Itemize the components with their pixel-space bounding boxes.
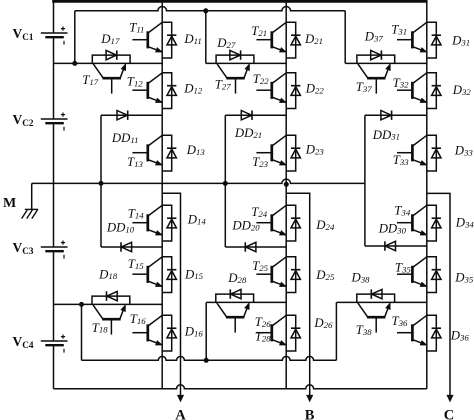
diode D22 xyxy=(286,73,300,109)
wire feeder drop phase B xyxy=(205,11,207,64)
diode D18 xyxy=(107,291,118,300)
wire output tap A xyxy=(162,193,180,396)
diode D25 xyxy=(286,257,300,293)
transistor T16 xyxy=(132,315,162,345)
wire T38 feeder riser xyxy=(335,302,337,360)
wire clamp bus phase A xyxy=(100,115,102,247)
wire T28 feeder riser xyxy=(205,302,207,360)
transistor T17 xyxy=(93,64,125,94)
wire feeder drop phase A xyxy=(74,11,76,64)
node output arrow B xyxy=(307,395,313,401)
transistor T26 xyxy=(256,315,286,345)
wire feeder drop phase C xyxy=(344,11,346,64)
node feeder dot phase B xyxy=(203,8,208,13)
wire M rail to ground xyxy=(31,183,33,209)
transistor T32 xyxy=(397,73,427,103)
transistor T12 xyxy=(132,73,162,103)
diode D12 xyxy=(162,73,176,109)
diode D27 xyxy=(230,50,241,59)
transistor T24 xyxy=(256,205,286,235)
transistor T13 xyxy=(132,135,162,165)
wire top DC+ bus xyxy=(52,0,427,3)
diode DD20 xyxy=(225,242,286,251)
diode D21 xyxy=(286,22,300,58)
diode D14 xyxy=(162,205,176,241)
wire VC3-VC4 junction to T18 row xyxy=(54,303,163,305)
transistor T34 xyxy=(397,205,427,235)
wire VC3-VC4 riser to rail1 xyxy=(81,304,83,360)
wire output tap C xyxy=(427,193,450,396)
diode DD11 xyxy=(101,111,162,120)
diode D27 loop xyxy=(216,55,254,63)
diode D17 xyxy=(106,50,117,59)
diode D24 xyxy=(286,205,300,241)
wire T37 row xyxy=(345,62,427,64)
diode D36 xyxy=(427,315,441,351)
wire T28 row xyxy=(206,301,286,303)
wire M midpoint rail xyxy=(32,179,365,183)
wire phase-C leg rail xyxy=(426,1,428,388)
wire VC1-VC2 junction top feeder xyxy=(75,6,345,10)
transistor T37 xyxy=(358,64,390,94)
capacitor VC1 xyxy=(41,27,68,45)
node VC3-VC4 junction dot xyxy=(79,302,84,307)
svg-text:A: A xyxy=(175,408,186,420)
wire clamp bus phase B xyxy=(224,115,226,247)
capacitor VC2 xyxy=(41,113,68,131)
diode DD30 xyxy=(365,241,427,250)
diode D16 xyxy=(162,315,176,351)
diode D18 loop xyxy=(92,296,130,304)
diode D11 xyxy=(162,22,176,58)
node clamp bus dot phase B xyxy=(223,181,228,186)
node rail1 dot phase B riser xyxy=(204,358,209,363)
diode D34 xyxy=(427,205,441,241)
transistor T23 xyxy=(256,135,286,165)
diode D37 xyxy=(371,50,382,59)
transistor T21 xyxy=(256,22,286,52)
diode DD10 xyxy=(101,242,162,251)
node M-rail dot at phase B xyxy=(284,182,289,187)
transistor T22 xyxy=(256,73,286,103)
capacitor VC4 xyxy=(41,335,68,353)
wire VC1-VC2 junction to T17 row xyxy=(54,62,163,64)
wire phase-A leg rail xyxy=(161,1,163,388)
node output arrow C xyxy=(447,395,453,401)
transistor T27 xyxy=(217,64,249,94)
diode DD21 xyxy=(225,111,286,120)
transistor T33 xyxy=(397,135,427,165)
transistor T36 xyxy=(397,315,427,345)
wire DC-link capacitor string xyxy=(53,1,55,388)
diode D23 xyxy=(286,135,300,171)
transistor T25 xyxy=(256,257,286,287)
node clamp bus dot phase A xyxy=(99,181,104,186)
transistor T14 xyxy=(132,205,162,235)
wire rail1 VC3-VC4 bus xyxy=(82,356,337,360)
wire rail2 DC- bus xyxy=(54,385,427,389)
wire phase-B leg rail xyxy=(285,1,287,388)
wire T27 row xyxy=(206,62,286,64)
diode D13 xyxy=(162,135,176,171)
svg-text:C: C xyxy=(444,408,454,420)
diode D32 xyxy=(427,73,441,109)
diode D37 loop xyxy=(357,55,395,63)
transistor T18 xyxy=(93,305,125,335)
node output arrow A xyxy=(178,395,184,401)
diode D26 xyxy=(286,315,300,351)
ground symbol M xyxy=(22,209,39,218)
diode D38 xyxy=(371,289,382,298)
node VC1-VC2 junction dot xyxy=(72,61,77,66)
diode D38 loop xyxy=(357,294,395,302)
transistor T28 xyxy=(217,303,249,333)
diode D28 loop xyxy=(216,294,254,302)
transistor T35 xyxy=(397,257,427,287)
wire T38 row xyxy=(336,301,426,303)
transistor T15 xyxy=(132,257,162,287)
diode D31 xyxy=(427,22,441,58)
transistor T31 xyxy=(397,22,427,52)
diode D15 xyxy=(162,257,176,293)
transistor T11 xyxy=(132,22,162,52)
wire output tap B xyxy=(286,193,310,396)
diode D35 xyxy=(427,257,441,293)
diode D17 loop xyxy=(92,55,130,63)
diode DD31 xyxy=(365,111,427,120)
diode D28 xyxy=(230,289,241,298)
transistor T38 xyxy=(358,303,390,333)
svg-text:B: B xyxy=(305,408,315,420)
capacitor VC3 xyxy=(41,241,68,259)
diode D33 xyxy=(427,135,441,171)
wire clamp bus phase C xyxy=(364,115,366,246)
svg-text:M: M xyxy=(3,196,16,211)
